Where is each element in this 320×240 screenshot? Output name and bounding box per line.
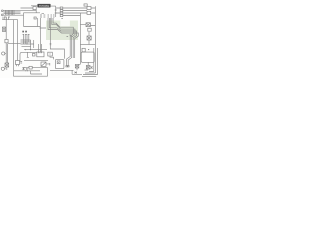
svg-text:TOYOTA: TOYOTA (39, 4, 49, 8)
